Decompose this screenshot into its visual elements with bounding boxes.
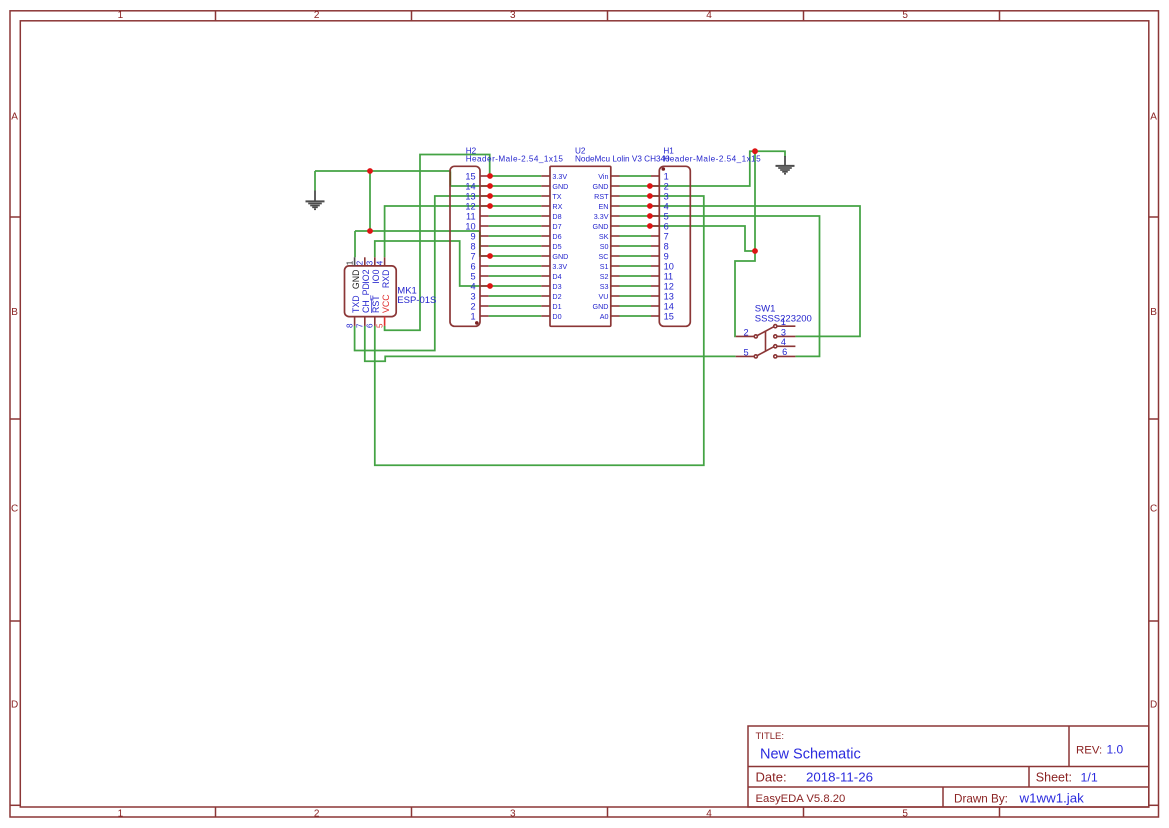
- SW1 pin numbers: [743, 317, 787, 357]
- svg-text:14: 14: [664, 301, 674, 311]
- svg-text:Vin: Vin: [598, 172, 608, 181]
- svg-text:S3: S3: [600, 282, 609, 291]
- svg-text:9: 9: [664, 251, 669, 261]
- svg-text:GND: GND: [593, 302, 609, 311]
- svg-text:S2: S2: [600, 272, 609, 281]
- svg-text:D1: D1: [552, 302, 561, 311]
- svg-text:A: A: [1150, 112, 1157, 123]
- svg-text:5: 5: [902, 808, 908, 819]
- MK1 pin name labels (rotated): [351, 269, 391, 313]
- wire TX net: H2 pin 13 to MK1 TXD: [355, 196, 489, 351]
- svg-text:VCC: VCC: [381, 294, 391, 313]
- SW1 pin 1 lead: [777, 325, 795, 327]
- svg-text:C: C: [1150, 504, 1157, 515]
- svg-text:3: 3: [781, 327, 786, 337]
- svg-text:ESP-01S: ESP-01S: [397, 295, 436, 306]
- wire CH_PD net: MK1 CH_PD to SW1 pin 5: [365, 326, 736, 361]
- svg-text:5: 5: [376, 323, 385, 328]
- svg-text:IO2: IO2: [361, 269, 371, 283]
- svg-text:w1ww1.jak: w1ww1.jak: [1019, 790, 1085, 805]
- svg-text:GND: GND: [351, 270, 361, 290]
- svg-text:13: 13: [465, 191, 475, 201]
- wire H2 to U2 row connectors: [489, 176, 542, 316]
- svg-text:D7: D7: [552, 222, 561, 231]
- module U2 NodeMcu: [541, 147, 670, 327]
- svg-text:3.3V: 3.3V: [594, 212, 609, 221]
- wire IO0 net: H2 pin 4 to MK1 IO0: [375, 241, 489, 286]
- wire 3.3V net: H2 pin 15 to MK1 VCC: [385, 155, 490, 331]
- svg-text:S0: S0: [600, 242, 609, 251]
- wire GND1 net: branch to MK1 pin 1: [354, 231, 356, 257]
- wire GND2 net: H1 pin 2 through box to riser: [651, 151, 785, 186]
- ground GND1: [306, 191, 325, 210]
- SW1 reference labels: [755, 303, 812, 324]
- SW1 mechanical link: [765, 331, 767, 352]
- SW1 lever pole 2: [757, 347, 773, 356]
- wire GND2 net: vertical from junction to SW1 pin 2: [735, 151, 755, 336]
- svg-text:1: 1: [470, 311, 475, 321]
- svg-text:NodeMcu Lolin V3 CH340: NodeMcu Lolin V3 CH340: [575, 155, 670, 164]
- wire GND1 net: ground symbol drop: [314, 171, 316, 191]
- svg-text:VU: VU: [599, 292, 609, 301]
- ground GND2: [776, 156, 795, 174]
- svg-text:1: 1: [118, 808, 124, 819]
- svg-text:D6: D6: [552, 232, 561, 241]
- svg-text:3: 3: [510, 808, 516, 819]
- svg-text:EN: EN: [599, 202, 609, 211]
- svg-text:GND: GND: [552, 182, 568, 191]
- svg-text:3.3V: 3.3V: [552, 172, 567, 181]
- header H2: [450, 147, 563, 327]
- svg-text:TX: TX: [552, 192, 561, 201]
- svg-text:9: 9: [470, 231, 475, 241]
- svg-text:B: B: [11, 307, 18, 318]
- svg-text:RST: RST: [594, 192, 609, 201]
- svg-text:Drawn By:: Drawn By:: [954, 792, 1008, 805]
- module MK1 ESP-01S: [345, 257, 437, 328]
- svg-text:REV:: REV:: [1076, 745, 1102, 757]
- svg-text:SSSS223200: SSSS223200: [755, 314, 812, 325]
- svg-text:5: 5: [902, 10, 908, 21]
- wire GND1 net: branch to H2 pin 7 along box edge: [355, 231, 489, 256]
- svg-text:GND: GND: [593, 222, 609, 231]
- svg-text:2: 2: [314, 808, 320, 819]
- svg-text:IO0: IO0: [371, 269, 381, 283]
- svg-text:15: 15: [664, 311, 674, 321]
- junction dots: [367, 148, 758, 289]
- svg-text:C: C: [11, 504, 18, 515]
- svg-text:2018-11-26: 2018-11-26: [806, 769, 873, 784]
- svg-text:5: 5: [743, 347, 748, 357]
- svg-text:D8: D8: [552, 212, 561, 221]
- svg-text:2: 2: [470, 301, 475, 311]
- wire U2 to H1 row connectors: [620, 176, 652, 316]
- SW1 pin 6 lead: [777, 355, 795, 357]
- svg-text:13: 13: [664, 291, 674, 301]
- svg-text:D4: D4: [552, 272, 561, 281]
- svg-text:S1: S1: [600, 262, 609, 271]
- svg-text:6: 6: [470, 261, 475, 271]
- svg-text:4: 4: [706, 10, 712, 21]
- svg-text:5: 5: [664, 211, 669, 221]
- title block: [748, 726, 1149, 807]
- svg-text:8: 8: [664, 241, 669, 251]
- MK1 pin 1 stub (black): [354, 257, 356, 266]
- svg-text:A0: A0: [600, 312, 609, 321]
- svg-text:6: 6: [782, 347, 787, 357]
- svg-text:3: 3: [470, 291, 475, 301]
- svg-text:7: 7: [470, 251, 475, 261]
- svg-text:Header-Male-2.54_1x15: Header-Male-2.54_1x15: [466, 155, 564, 164]
- svg-text:RST: RST: [371, 295, 381, 313]
- MK1 reference labels: [397, 286, 436, 306]
- svg-text:4: 4: [470, 281, 475, 291]
- svg-text:2: 2: [664, 181, 669, 191]
- svg-text:2: 2: [743, 327, 748, 337]
- MK1 pin stubs 8,7,6 bottom: [354, 317, 356, 326]
- svg-text:4: 4: [376, 260, 385, 265]
- svg-text:4: 4: [781, 337, 786, 347]
- wire RST net: MK1 RST to H1 pin 3: [375, 196, 704, 465]
- title block texts: [756, 731, 1103, 806]
- svg-text:2: 2: [314, 10, 320, 21]
- svg-text:GND: GND: [552, 252, 568, 261]
- wire 3.3V-SW net: H1 pin 5 to SW1 pin 6: [651, 216, 820, 356]
- MK1 pin stubs 2,3,4 top: [355, 257, 385, 326]
- svg-text:D: D: [11, 700, 18, 711]
- wire EN net: H1 pin 4 to SW1 pin 3: [651, 206, 860, 336]
- SW1 contact circles: [754, 335, 757, 338]
- wire RX net: H2 pin 12 to MK1 RXD: [385, 206, 489, 257]
- svg-text:11: 11: [466, 211, 476, 221]
- svg-text:4: 4: [706, 808, 712, 819]
- svg-text:1/1: 1/1: [1081, 771, 1098, 785]
- wire GND1 net: ground to H2 pin 14: [315, 171, 489, 186]
- svg-text:15: 15: [465, 171, 475, 181]
- wire overlap on H2 right edge (GND1 net): [479, 232, 481, 255]
- svg-text:1: 1: [664, 171, 669, 181]
- svg-text:6: 6: [366, 323, 375, 328]
- svg-text:3: 3: [510, 10, 516, 21]
- wire overlap on H2 left edge (GND1 net): [449, 172, 451, 186]
- MK1 pin 5 stub (red VCC): [384, 317, 386, 326]
- svg-text:SK: SK: [599, 232, 609, 241]
- svg-text:8: 8: [470, 241, 475, 251]
- svg-text:10: 10: [465, 221, 475, 231]
- SW1 lever pole 1: [757, 327, 773, 336]
- SW1 pin 2 lead: [736, 335, 754, 337]
- svg-text:D: D: [1150, 700, 1157, 711]
- svg-text:RXD: RXD: [381, 270, 391, 289]
- svg-text:5: 5: [470, 271, 475, 281]
- header H1: [651, 147, 761, 327]
- SW1 pin 5 lead: [736, 355, 754, 357]
- svg-text:4: 4: [664, 201, 669, 211]
- svg-text:8: 8: [346, 323, 355, 328]
- MK1 top pin numbers: [346, 260, 385, 328]
- svg-text:7: 7: [664, 231, 669, 241]
- svg-text:D0: D0: [552, 312, 561, 321]
- svg-text:D3: D3: [552, 282, 561, 291]
- svg-text:11: 11: [664, 271, 674, 281]
- svg-text:A: A: [11, 112, 18, 123]
- svg-text:7: 7: [356, 323, 365, 328]
- svg-text:GND: GND: [593, 182, 609, 191]
- svg-text:3.3V: 3.3V: [552, 262, 567, 271]
- svg-text:D5: D5: [552, 242, 561, 251]
- svg-text:CH_PD: CH_PD: [361, 283, 371, 313]
- svg-text:3: 3: [664, 191, 669, 201]
- svg-text:2: 2: [356, 260, 365, 265]
- svg-text:New Schematic: New Schematic: [760, 746, 861, 762]
- SW1 pin 4 lead: [777, 345, 795, 347]
- svg-text:EasyEDA V5.8.20: EasyEDA V5.8.20: [756, 793, 846, 805]
- svg-text:10: 10: [664, 261, 674, 271]
- svg-text:Sheet:: Sheet:: [1036, 771, 1072, 785]
- wire GND2 net: H1 pin 6 jog to junction: [651, 226, 755, 251]
- svg-text:6: 6: [664, 221, 669, 231]
- svg-text:TXD: TXD: [351, 295, 361, 313]
- svg-text:12: 12: [664, 281, 674, 291]
- SW1 pin 3 lead: [777, 335, 795, 337]
- svg-text:Date:: Date:: [756, 769, 787, 784]
- svg-text:3: 3: [366, 260, 375, 265]
- svg-text:1.0: 1.0: [1107, 743, 1124, 757]
- svg-text:12: 12: [465, 201, 475, 211]
- svg-text:B: B: [1150, 307, 1157, 318]
- svg-text:TITLE:: TITLE:: [756, 731, 785, 742]
- svg-text:14: 14: [465, 181, 475, 191]
- svg-text:RX: RX: [552, 202, 562, 211]
- wire GND1 net: junction link vertical: [369, 171, 371, 231]
- switch SW1: [736, 303, 812, 358]
- svg-text:1: 1: [118, 10, 124, 21]
- svg-text:1: 1: [346, 260, 355, 265]
- svg-text:Header-Male-2.54_1x15: Header-Male-2.54_1x15: [663, 155, 761, 164]
- svg-text:D2: D2: [552, 292, 561, 301]
- svg-text:SC: SC: [599, 252, 609, 261]
